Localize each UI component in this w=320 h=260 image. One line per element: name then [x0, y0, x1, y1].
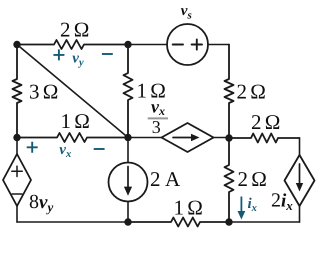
- bottom rail wire right: [229, 221, 300, 223]
- resistor R 2ohm (lower right vertical): [225, 138, 234, 222]
- svg-text:ix: ix: [248, 196, 257, 214]
- svg-text:vs: vs: [181, 3, 192, 22]
- svg-text:2Ω: 2Ω: [238, 167, 268, 191]
- node bottom-middle: [124, 218, 131, 225]
- label - (vy polarity): [102, 53, 113, 55]
- svg-text:1Ω: 1Ω: [61, 109, 91, 133]
- node mid-left: [13, 134, 20, 141]
- svg-text:vx: vx: [59, 142, 71, 160]
- resistor R 1ohm (bottom rail): [128, 218, 229, 227]
- resistor R 1ohm (middle rail horizontal): [17, 133, 128, 142]
- current source 2A (circle, arrow down): [109, 138, 148, 223]
- svg-text:2Ω: 2Ω: [237, 79, 267, 103]
- resistor R 3ohm (left vertical): [13, 45, 22, 138]
- label + (vx polarity): [27, 142, 38, 153]
- svg-text:8vy: 8vy: [29, 191, 53, 215]
- resistor R 2ohm (right horizontal): [229, 134, 300, 143]
- label vx/3 fraction: [148, 97, 168, 137]
- node top-middle: [124, 41, 131, 48]
- svg-text:2A: 2A: [150, 167, 181, 191]
- svg-text:3: 3: [152, 117, 161, 137]
- svg-text:vy: vy: [72, 51, 84, 69]
- resistor R 1ohm (middle vertical): [124, 45, 133, 138]
- current arrow ix (teal): [238, 197, 246, 220]
- node bottom-right: [225, 218, 232, 225]
- resistor R 2ohm (top rail): [17, 40, 128, 49]
- node center: [124, 134, 131, 141]
- dependent current source vx/3 (diamond, arrow right): [128, 123, 229, 152]
- svg-text:3Ω: 3Ω: [29, 80, 59, 104]
- svg-text:2Ω: 2Ω: [60, 18, 90, 42]
- label - (vx polarity): [94, 148, 105, 150]
- dependent voltage source 8vy (left diamond): [3, 138, 31, 223]
- diagonal wire from top-left node to center node: [17, 45, 128, 138]
- wire + resistor R 2ohm (upper right vertical): [225, 45, 234, 139]
- svg-text:2Ω: 2Ω: [251, 110, 281, 134]
- bottom rail wire left: [17, 221, 128, 223]
- node mid-right: [225, 134, 232, 141]
- svg-text:2ix: 2ix: [271, 189, 293, 213]
- label + (vy polarity): [53, 49, 64, 60]
- voltage source vs (independent, circle): [128, 24, 229, 65]
- node top-left: [13, 41, 20, 48]
- dependent current source 2ix (right edge diamond, arrow down): [285, 138, 315, 222]
- svg-text:1Ω: 1Ω: [174, 195, 204, 219]
